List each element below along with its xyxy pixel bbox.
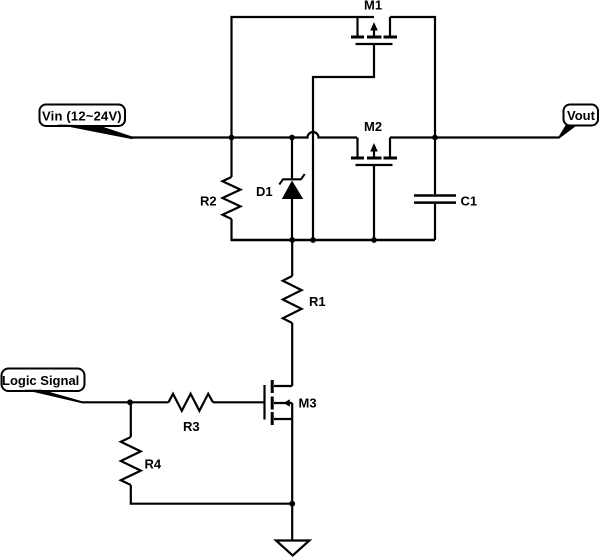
svg-text:R2: R2 bbox=[200, 194, 217, 209]
capacitor C1 bbox=[414, 138, 456, 241]
svg-text:M2: M2 bbox=[364, 119, 382, 134]
junction ground bbox=[289, 501, 295, 507]
zener diode D1 bbox=[279, 138, 304, 241]
wire M2 gate down to bottom rail bbox=[373, 165, 375, 240]
wire R4 to ground node bbox=[131, 485, 292, 504]
wire R3 to M3 gate bbox=[213, 401, 264, 403]
junction bus/R2 bbox=[229, 135, 235, 141]
resistor R1 bbox=[283, 240, 302, 386]
wire M3 source to ground bbox=[291, 419, 293, 541]
wire M2 source to Vout node bbox=[390, 136, 435, 138]
svg-text:Logic Signal: Logic Signal bbox=[2, 373, 79, 388]
svg-text:Vin (12~24V): Vin (12~24V) bbox=[42, 109, 122, 124]
node Logic Signal label bbox=[2, 369, 85, 404]
mosfet M1 bbox=[351, 17, 397, 44]
svg-text:R4: R4 bbox=[145, 457, 162, 472]
wire Vin bus to M2 drain (with hop over M1 gate wire) bbox=[131, 132, 357, 138]
svg-text:R1: R1 bbox=[309, 294, 326, 309]
svg-text:D1: D1 bbox=[256, 184, 273, 199]
ground bbox=[276, 541, 309, 556]
svg-text:M3: M3 bbox=[299, 396, 317, 411]
junction rail/M1 gate bbox=[310, 237, 316, 243]
junction bus/C1/Vout bbox=[432, 135, 438, 141]
node Vout label bbox=[559, 105, 598, 139]
mosfet M2 bbox=[351, 138, 397, 166]
svg-text:Vout: Vout bbox=[567, 108, 596, 123]
resistor R4 bbox=[121, 402, 141, 485]
wire Vout bbox=[435, 136, 559, 138]
junction logic/R4 bbox=[127, 399, 133, 405]
wire M1 gate down to bottom rail bbox=[313, 44, 374, 240]
wire bottom rail bbox=[231, 239, 436, 241]
wire Logic Signal to R3 bbox=[82, 401, 169, 403]
svg-text:C1: C1 bbox=[461, 194, 478, 209]
resistor R2 bbox=[223, 138, 241, 241]
wire top loop left (bus up to M1 drain) bbox=[232, 17, 375, 138]
junction bus/D1 bbox=[289, 135, 295, 141]
svg-text:R3: R3 bbox=[183, 419, 200, 434]
wire M1 source to top right corner down to Vout node bbox=[390, 17, 435, 138]
node Vin label bbox=[40, 105, 133, 140]
mosfet M3 bbox=[265, 380, 293, 425]
junction rail/R1 bbox=[289, 237, 295, 243]
svg-text:M1: M1 bbox=[364, 0, 382, 13]
junction rail/M2 gate bbox=[371, 237, 377, 243]
resistor R3 bbox=[169, 394, 214, 411]
